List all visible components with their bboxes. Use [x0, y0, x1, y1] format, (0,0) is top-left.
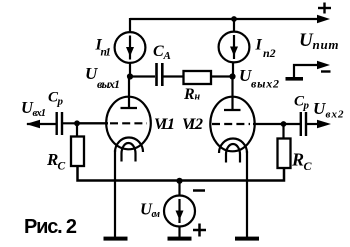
svg-text:пит: пит — [313, 37, 339, 52]
wire bottom rail right part — [180, 168, 284, 181]
label Cp (left) — [48, 90, 64, 108]
wire RH to node Uvyh2 — [211, 75, 233, 77]
label + (UCM plus) — [193, 224, 206, 237]
label Cp (right) — [294, 94, 310, 112]
wire node to RC (right) — [282, 124, 284, 139]
svg-text:вх1: вх1 — [33, 108, 47, 119]
svg-text:вых2: вых2 — [251, 77, 279, 91]
svg-text:п2: п2 — [263, 46, 276, 60]
ground (VL2 cathode) — [235, 237, 259, 241]
tube VL1 heater — [122, 143, 136, 162]
wire node Uvyh1 to CA — [130, 75, 155, 77]
label RC (right) — [291, 150, 313, 174]
label CA — [153, 43, 171, 62]
output arrow Uvh2 — [307, 120, 331, 129]
wire RC (left) to bottom rail — [78, 166, 181, 181]
tube VL1 grid — [110, 122, 147, 124]
svg-text:A: A — [163, 50, 171, 62]
tube VL2 cathode — [219, 139, 247, 154]
svg-text:см: см — [152, 209, 161, 220]
ground (VL1 cathode) — [104, 237, 128, 241]
label RC (left) — [46, 150, 66, 173]
svg-text:Рис. 2: Рис. 2 — [24, 216, 77, 238]
capacitor Cp (left) — [57, 112, 62, 135]
ground (UCM) — [168, 237, 192, 241]
svg-text:C: C — [153, 43, 164, 60]
current source Ip1 — [115, 32, 146, 63]
svg-text:C: C — [58, 161, 66, 173]
svg-text:р: р — [57, 96, 64, 108]
node (right grid / RC) — [281, 121, 287, 127]
junction on top rail — [231, 16, 237, 22]
label Ip1 — [95, 37, 112, 59]
svg-text:U: U — [313, 99, 326, 118]
svg-text:п1: п1 — [101, 47, 112, 59]
resistor RC (right) — [278, 139, 291, 169]
svg-text:р: р — [303, 100, 310, 112]
wire Cp to VL1 grid — [63, 122, 108, 124]
label + (plus of Upit) — [318, 3, 331, 14]
wire VL2 grid lead — [253, 123, 284, 125]
svg-text:вх2: вх2 — [326, 109, 345, 121]
label Uvyh2 — [239, 66, 279, 91]
tube VL2 envelope — [210, 97, 254, 152]
svg-text:R: R — [46, 150, 58, 169]
current source Ip2 — [219, 32, 250, 63]
wire VL2 cathode to ground — [246, 151, 248, 237]
wire VL1 grid lead — [77, 122, 108, 124]
tube VL1 anode — [121, 77, 138, 109]
svg-text:н: н — [195, 92, 201, 103]
wire UCM to ground — [178, 227, 180, 238]
wire Ip1 to node Uvyh1 — [129, 62, 131, 77]
svg-text:вых1: вых1 — [97, 77, 120, 91]
node (left grid / RC) — [74, 120, 80, 126]
wire Ip2 to node Uvyh2 — [232, 62, 234, 78]
svg-text:VL1: VL1 — [154, 116, 175, 133]
wire node to RC (left) — [76, 123, 78, 137]
tube VL1 envelope — [106, 97, 151, 150]
tube VL2 anode — [224, 77, 241, 111]
label Uvh1 — [21, 98, 46, 119]
capacitor Cp (right) — [301, 112, 306, 136]
node Uvyh2 — [229, 73, 235, 79]
capacitor CA — [157, 63, 163, 86]
label UCM — [140, 200, 160, 221]
svg-text:C: C — [304, 159, 313, 173]
label Uvyh1 — [85, 64, 120, 91]
wire rail to Ip2 — [233, 19, 235, 33]
tube VL1 cathode — [115, 138, 143, 153]
label Ip2 — [255, 37, 276, 61]
label - (minus of Upit) — [321, 70, 331, 72]
wire node to Cp (right) — [284, 123, 301, 125]
tube VL2 heater — [226, 144, 240, 163]
node bottom rail / UCM — [176, 178, 182, 184]
node Uvyh1 — [127, 73, 133, 79]
svg-text:VL2: VL2 — [182, 116, 203, 133]
input arrow Uvh1 — [26, 120, 56, 129]
wire VL1 cathode to ground — [114, 150, 116, 237]
label Upit — [299, 30, 339, 52]
wire: +Upit top rail — [130, 15, 330, 33]
wire node to UCM source — [178, 181, 180, 196]
common terminal symbol (minus of Upit) — [286, 61, 331, 81]
wire CA to RH — [164, 75, 185, 77]
svg-text:R: R — [291, 150, 304, 170]
svg-text:R: R — [183, 86, 195, 103]
label - (UCM minus) — [193, 189, 205, 192]
resistor RH — [184, 71, 212, 84]
tube VL2 grid — [212, 123, 250, 125]
svg-text:I: I — [255, 37, 263, 54]
voltage source UCM — [164, 196, 195, 227]
resistor RC (left) — [71, 137, 84, 167]
label Uvh2 — [313, 99, 344, 121]
label RH — [183, 86, 201, 103]
